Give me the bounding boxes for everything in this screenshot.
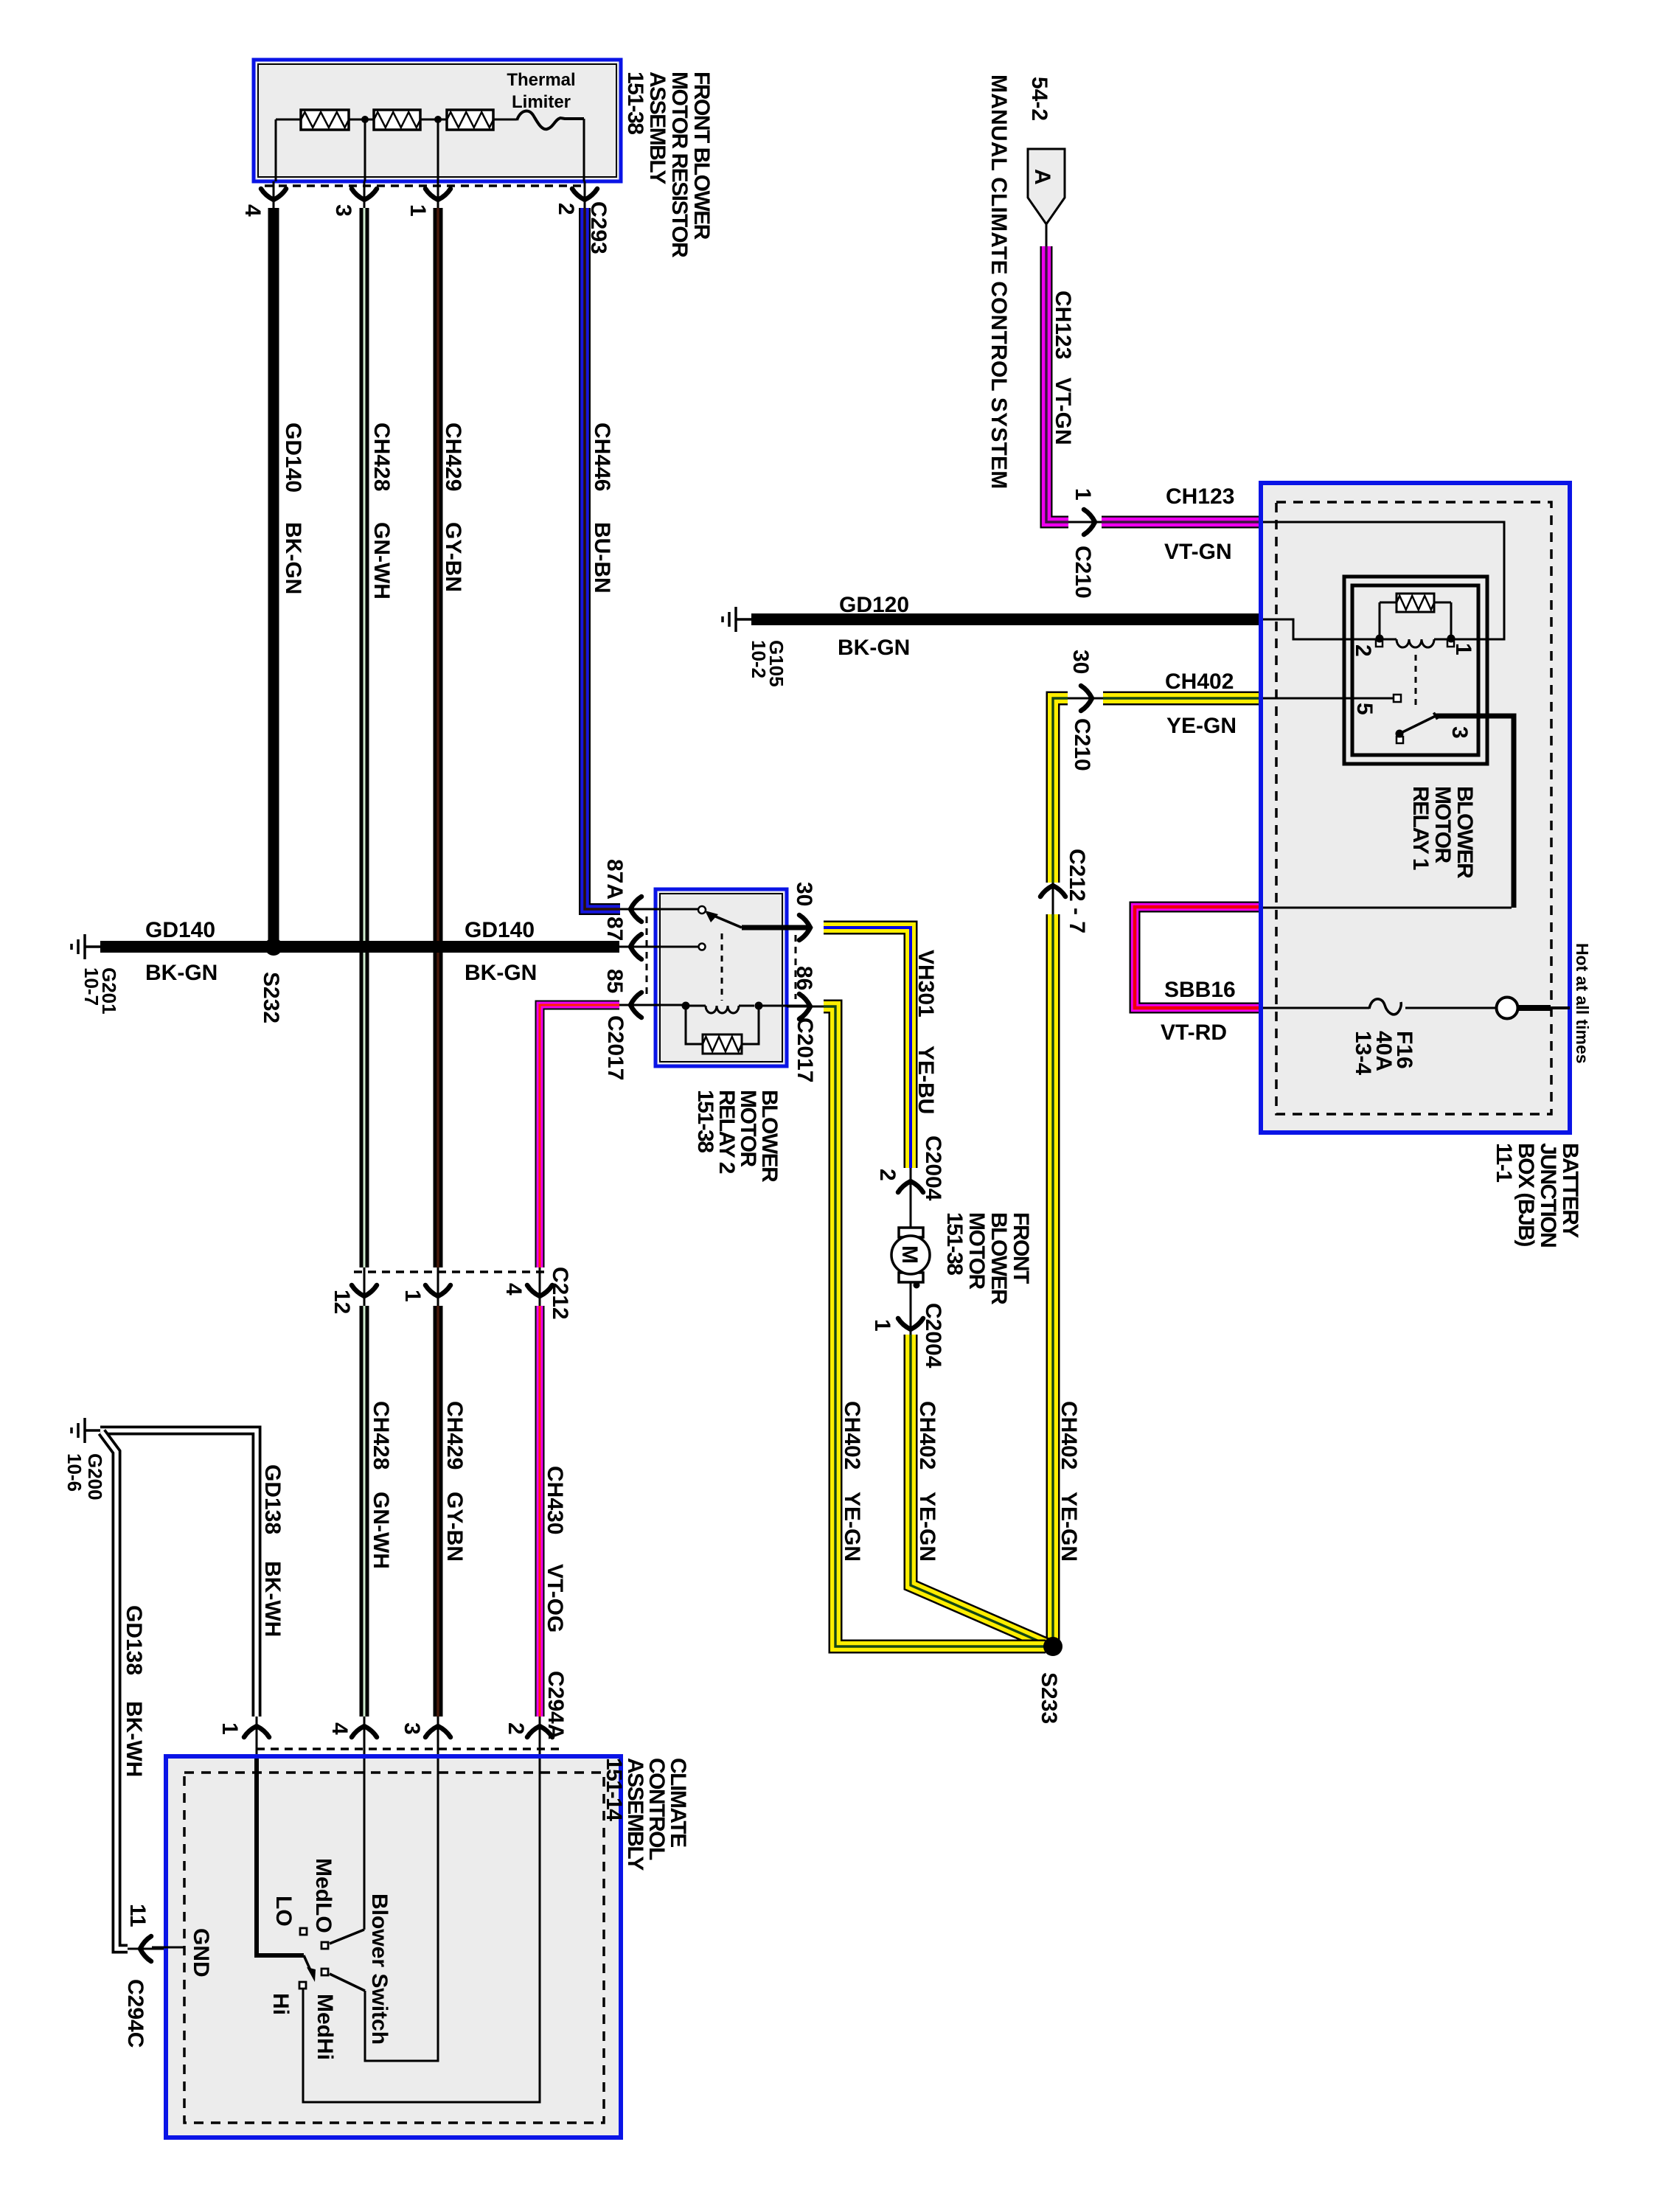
svg-text:Thermal: Thermal [507, 70, 575, 90]
BJB internal wire from CH402 to relay1 pin 5 [1263, 698, 1394, 700]
wire GD138 pin11 label [122, 1605, 146, 1675]
svg-text:YE-BU: YE-BU [914, 1046, 938, 1114]
wire CH402 86 label [840, 1401, 864, 1470]
svg-text:CH402: CH402 [1165, 669, 1234, 694]
splice S232 label [259, 972, 283, 1023]
thermal limiter [507, 70, 584, 129]
blower motor relay 1 box [1344, 577, 1487, 764]
svg-text:2: 2 [504, 1722, 528, 1735]
connector C2004 label lower [921, 1303, 945, 1368]
svg-text:M: M [897, 1245, 922, 1264]
svg-text:LO: LO [271, 1896, 296, 1927]
relay 1 coil terminal dot 2 [1376, 635, 1384, 647]
wire CH428 lower label [369, 1401, 393, 1470]
relay 2 switch output thick wire to pin 30 [742, 925, 810, 931]
svg-text:A: A [1030, 169, 1054, 185]
resistor R-med2 [447, 110, 493, 130]
wire CH123 vertical label [1051, 291, 1075, 359]
pin 11 label [125, 1904, 150, 1927]
resistor assembly label [623, 72, 714, 258]
ground G105 label [748, 640, 787, 687]
wire CH402 86 label color [840, 1492, 864, 1562]
BJB inner dashed boundary [1276, 502, 1551, 1114]
wire CH429 upper label [441, 422, 465, 491]
pin 1 label [870, 1319, 894, 1332]
connector C2004 pin 1 [898, 1282, 923, 1335]
connector C2004 label upper [921, 1135, 945, 1201]
svg-text:C294A: C294A [543, 1671, 568, 1739]
svg-text:SBB16: SBB16 [1164, 978, 1236, 1002]
relay 1 label [1408, 786, 1477, 879]
pin 2 of C293 [572, 181, 597, 209]
wire CH429 lower label color [442, 1492, 467, 1562]
svg-text:MedLO: MedLO [311, 1858, 335, 1933]
svg-text:12: 12 [330, 1290, 354, 1314]
connector C210 pin 1 [1068, 509, 1102, 535]
ground G200 [72, 1418, 100, 1443]
svg-text:GD140: GD140 [145, 918, 215, 942]
battery junction box BJB [1261, 483, 1570, 1133]
svg-text:CH123: CH123 [1166, 484, 1234, 509]
junction dot node bus-pin1 [434, 116, 442, 123]
svg-text:GN-WH: GN-WH [369, 522, 394, 599]
svg-text:1: 1 [406, 204, 430, 217]
wire CH430 label [543, 1466, 567, 1534]
front blower motor label [942, 1212, 1033, 1305]
svg-text:3: 3 [400, 1722, 424, 1735]
MedHi label [313, 1994, 337, 2060]
off-page connector A [1028, 149, 1065, 224]
connector C210 pin 30 [1068, 686, 1103, 711]
svg-text:BK-GN: BK-GN [281, 522, 305, 594]
wire CH430 label color [543, 1564, 567, 1632]
svg-text:GY-BN: GY-BN [441, 522, 465, 592]
svg-text:YE-GN: YE-GN [1057, 1492, 1081, 1562]
svg-text:GY-BN: GY-BN [442, 1492, 467, 1562]
resistor network bus wire [276, 119, 517, 121]
connector C2017 left dashed line [646, 917, 648, 999]
svg-text:86: 86 [792, 966, 816, 990]
wire CH402 riser label [1057, 1401, 1081, 1470]
climate control assembly label [602, 1758, 690, 1871]
switch common wire from pin 1 [257, 1759, 304, 1955]
svg-text:Hi: Hi [268, 1993, 293, 2015]
wire GD120 BK-GN [751, 613, 1262, 625]
connector C294A pin 4 [352, 1717, 377, 1761]
svg-text:1: 1 [870, 1319, 894, 1332]
motor letter M [897, 1245, 922, 1264]
svg-text:GD138: GD138 [122, 1605, 146, 1675]
relay 1 pin 3 thick wire [1436, 716, 1514, 908]
pin 2 label [504, 1722, 528, 1735]
relay 2 switch contact 87 [699, 944, 706, 950]
wire CH429 upper label color [441, 522, 465, 592]
svg-text:CH430: CH430 [543, 1466, 567, 1534]
wire CH430 VT-OG lower segment [535, 1306, 545, 1717]
connector C212 label [548, 1267, 572, 1320]
pin 1 label [218, 1722, 242, 1735]
svg-text:2: 2 [875, 1169, 900, 1181]
svg-text:BK-GN: BK-GN [145, 961, 218, 985]
wire CH446 BU-BN [585, 208, 620, 909]
svg-text:GD140: GD140 [465, 918, 535, 942]
wire CH428 upper label [369, 422, 394, 491]
pin 86 label [792, 966, 816, 990]
blower switch pivot blade [304, 1955, 316, 1982]
svg-text:CH123: CH123 [1051, 291, 1075, 359]
wire CH402 riser label color [1057, 1492, 1081, 1562]
svg-text:1: 1 [400, 1290, 425, 1302]
svg-text:BK-WH: BK-WH [260, 1561, 285, 1637]
wire CH429 GY-BN lower segment [434, 1306, 443, 1717]
front blower motor resistor assembly box 151-38 [254, 60, 621, 181]
relay 2 pin 86 [787, 994, 824, 1019]
connector C294A pin 1 [244, 1717, 269, 1761]
pin 1 label [1071, 488, 1095, 501]
relay 2 coil [689, 1006, 754, 1013]
relay 2 coil terminal dot right [755, 1002, 763, 1010]
pin 2 label [875, 1169, 900, 1181]
svg-text:CH429: CH429 [442, 1401, 467, 1470]
pin 87 label [602, 917, 627, 941]
wire GD140 horizontal bus BK-GN [100, 941, 619, 953]
svg-text:3: 3 [331, 204, 355, 217]
svg-text:BK-GN: BK-GN [838, 636, 910, 660]
wire VH301 YE-BU from relay2 pin 30 [824, 928, 911, 1168]
wire GD140 vertical label [281, 422, 305, 493]
splice S233 label [1037, 1672, 1061, 1724]
climate control assembly box [166, 1756, 621, 2138]
wire GD138 pin11 label color [122, 1701, 146, 1777]
wire VH301 label color [914, 1046, 938, 1114]
connector C293 label [586, 201, 611, 254]
svg-text:87: 87 [602, 917, 627, 941]
svg-text:CH402: CH402 [840, 1401, 864, 1470]
connector C212 dashed line [354, 1270, 549, 1273]
relay 1 pin 3 label [1447, 726, 1472, 739]
svg-text:11: 11 [125, 1904, 150, 1927]
svg-text:87A: 87A [602, 859, 627, 900]
svg-text:BK-WH: BK-WH [122, 1701, 146, 1777]
climate box inner dashed boundary [184, 1773, 604, 2123]
wire CH446 label [590, 422, 614, 491]
wire CH429 lower label [442, 1401, 467, 1470]
pin 4 internal wire [364, 1759, 366, 1930]
connector C212 - 7 label [1065, 849, 1089, 933]
BJB internal wire from SBB16 bottom to fuse [1263, 1007, 1369, 1009]
connector C2017 right label [793, 1018, 817, 1082]
BJB internal wire from GD120 to relay1 pin 2 [1263, 619, 1376, 639]
GND terminal wire [152, 1947, 184, 1949]
relay 2 switch contact 87A [698, 906, 706, 914]
wire CH402 motor label [915, 1401, 939, 1470]
svg-text:VT-OG: VT-OG [543, 1564, 567, 1632]
wire CH402 YE-GN riser lower segment [1046, 914, 1060, 1646]
wire SBB16 VT-RD loop [1135, 907, 1262, 1008]
wire CH446 label color [590, 522, 614, 594]
wire GD140 BK-GN vertical [268, 208, 279, 941]
svg-text:GN-WH: GN-WH [369, 1492, 393, 1569]
lead from connector A [1046, 224, 1048, 246]
manual climate control system label [987, 74, 1011, 489]
wire GD138 pin1 label color [260, 1561, 285, 1637]
pin 4 label [501, 1283, 526, 1295]
pin 1 label [400, 1290, 425, 1302]
relay 1 switch blade [1399, 713, 1438, 734]
svg-text:CH428: CH428 [369, 422, 394, 491]
svg-text:C2004: C2004 [921, 1135, 945, 1201]
svg-text:4: 4 [501, 1283, 526, 1295]
pin 4 of C293 [261, 181, 286, 209]
svg-text:BU-BN: BU-BN [590, 522, 614, 594]
pin 3 label [400, 1722, 424, 1735]
connector C2017 right dashed line [795, 935, 797, 999]
sheet reference 54-2 label [1027, 77, 1051, 121]
MedLO blade to pin 4 wire [330, 1930, 364, 1944]
wire CH428 GN-WH upper segment [360, 208, 369, 1267]
C212 pin 4 [527, 1267, 552, 1306]
MedHi blade to pin 3 wire [330, 1974, 365, 1991]
svg-text:CH402: CH402 [915, 1401, 939, 1470]
relay 1 coil [1380, 639, 1451, 647]
svg-text:GD140: GD140 [281, 422, 305, 493]
switch position contact MedLO [321, 1942, 328, 1949]
svg-text:3: 3 [1447, 726, 1472, 739]
svg-text:CH402: CH402 [1057, 1401, 1081, 1470]
svg-text:Blower Switch: Blower Switch [367, 1893, 392, 2045]
relay 2 actuator dashed link [721, 933, 723, 1001]
svg-text:54-2: 54-2 [1027, 77, 1051, 121]
relay 2 parallel resistor [686, 1006, 759, 1054]
svg-text:VH301: VH301 [914, 950, 938, 1018]
relay 2 pin 87A [620, 897, 703, 922]
relay 1 actuator dashed link [1415, 655, 1417, 706]
wire GD138 BK-WH branch to pin 11 [102, 1432, 128, 1949]
wire CH430 VT-OG upper segment [540, 1005, 619, 1267]
svg-text:GD138: GD138 [260, 1464, 285, 1534]
svg-text:YE-GN: YE-GN [840, 1492, 864, 1562]
resistor R-med1 [374, 110, 420, 130]
svg-text:Limiter: Limiter [512, 92, 571, 112]
wire VH301 label [914, 950, 938, 1018]
wire GD138 pin1 label [260, 1464, 285, 1534]
internal drop wires to pins [276, 119, 584, 181]
BJB internal wire from SBB16 top to relay1 pin 3 [1263, 907, 1512, 909]
svg-text:S233: S233 [1037, 1672, 1061, 1724]
LO label [271, 1896, 296, 1927]
pin 85 label [602, 969, 627, 993]
svg-text:C210: C210 [1071, 546, 1095, 599]
svg-text:C212: C212 [548, 1267, 572, 1320]
connector C294A pin 3 [425, 1717, 451, 1761]
switch position contact Hi [299, 1982, 306, 1989]
svg-text:30: 30 [792, 882, 816, 906]
svg-text:1: 1 [218, 1722, 242, 1735]
relay 2 pin 30 [799, 915, 810, 940]
svg-text:2: 2 [554, 203, 578, 215]
ground G200 label [63, 1453, 106, 1500]
svg-text:GND: GND [189, 1928, 213, 1978]
pin 87A label [602, 859, 627, 900]
fuse terminal circle [1405, 998, 1518, 1019]
svg-text:CH429: CH429 [441, 422, 465, 491]
wire CH402 YE-GN horizontal [1103, 692, 1262, 706]
relay 1 pin 2 label [1351, 644, 1375, 657]
relay 2 switch blade [705, 911, 742, 928]
svg-text:VT-RD: VT-RD [1161, 1020, 1227, 1045]
svg-text:MedHi: MedHi [313, 1994, 337, 2060]
svg-text:C2017: C2017 [793, 1018, 817, 1082]
svg-text:Hot at all times: Hot at all times [1573, 943, 1592, 1064]
connector A letter [1030, 169, 1054, 185]
hot at all times label [1573, 943, 1592, 1064]
pin 3 internal wire [365, 1759, 438, 2061]
relay 1 pin 1 label [1451, 643, 1475, 655]
ground G201 label [80, 967, 120, 1015]
connector C294A pin 2 [527, 1717, 552, 1761]
wire CH123 VT-GN horizontal [1102, 516, 1262, 529]
fuse F16 label [1351, 1031, 1416, 1075]
ground G105 [723, 607, 751, 632]
svg-text:GD120: GD120 [839, 593, 909, 617]
connector C212 pin 7 [1040, 883, 1065, 914]
svg-text:4: 4 [327, 1722, 352, 1735]
svg-text:VT-GN: VT-GN [1051, 378, 1075, 445]
svg-text:1: 1 [1071, 488, 1095, 501]
BJB internal wire from CH123 to relay1 pin 1 [1263, 522, 1504, 639]
pin 12 label [330, 1290, 354, 1314]
wire GD138 BK-WH branch to pin 1 [100, 1430, 257, 1717]
svg-text:MANUAL CLIMATE CONTROL SYSTEM: MANUAL CLIMATE CONTROL SYSTEM [987, 74, 1011, 489]
relay 2 pin 87 [619, 934, 703, 959]
relay 1 resistor [1380, 594, 1451, 639]
pin 1 of C293 [425, 181, 451, 209]
GND label [189, 1928, 213, 1978]
splice S232 [265, 938, 282, 956]
fuse F16 40A [1369, 999, 1401, 1015]
svg-text:CH446: CH446 [590, 422, 614, 491]
blower motor relay 2 box [655, 889, 787, 1066]
junction dot node bus-pin3 [361, 116, 369, 123]
connector C294A dashed line [257, 1747, 564, 1750]
BJB label [1492, 1143, 1582, 1247]
svg-text:YE-GN: YE-GN [1166, 714, 1237, 738]
connector C2017 left label [603, 1015, 627, 1080]
wire CH428 GN-WH lower segment [360, 1306, 369, 1717]
svg-text:30: 30 [1068, 650, 1093, 674]
pin 2 internal wire to Hi [303, 1759, 540, 2102]
C212 pin 12 [352, 1267, 377, 1306]
connector C294A label [543, 1671, 568, 1739]
svg-text:C212 - 7: C212 - 7 [1065, 849, 1089, 933]
connector C210 label lower [1070, 718, 1094, 771]
svg-text:C294C: C294C [123, 1979, 147, 2048]
svg-text:85: 85 [602, 969, 627, 993]
wire CH402 YE-GN riser top corner [1053, 698, 1068, 883]
pin 3 of C293 [352, 181, 377, 209]
svg-text:1: 1 [1451, 643, 1475, 655]
connector C294C label [123, 1979, 147, 2048]
svg-text:C210: C210 [1070, 718, 1094, 771]
svg-text:CH428: CH428 [369, 1401, 393, 1470]
relay 2 coil terminal dot left [682, 1002, 690, 1010]
svg-text:YE-GN: YE-GN [915, 1492, 939, 1562]
svg-text:C2004: C2004 [921, 1303, 945, 1368]
wire CH402 YE-GN from relay2 pin 86 [824, 1006, 1046, 1646]
relay 2 pin 85 [619, 992, 686, 1018]
connector C2004 pin 2 [898, 1168, 923, 1228]
connector C293 dashed line [265, 184, 585, 187]
relay 2 label [693, 1090, 782, 1183]
svg-text:C2017: C2017 [603, 1015, 627, 1080]
svg-text:2: 2 [1351, 644, 1375, 657]
MedLO label [311, 1858, 335, 1933]
pin 30 label [1068, 650, 1093, 674]
connector C294C pin 11 [128, 1936, 184, 1961]
C212 pin 1 [425, 1267, 451, 1306]
splice S233 [1043, 1637, 1062, 1656]
pin 30 label [792, 882, 816, 906]
front blower motor M [891, 1228, 930, 1282]
Hi label [268, 1993, 293, 2015]
battery feed thick wire [1518, 1005, 1551, 1011]
relay 1 coil terminal dot 1 [1447, 635, 1455, 647]
blower switch label [367, 1893, 392, 2045]
ground G201 [72, 934, 100, 959]
svg-text:BK-GN: BK-GN [465, 961, 537, 985]
wire CH402 YE-GN from motor [911, 1335, 1048, 1645]
svg-text:F1640A13-4: F1640A13-4 [1351, 1031, 1416, 1075]
motor polarity dot [914, 1282, 920, 1289]
switch position contact MedHi [321, 1969, 328, 1975]
relay 1 switch pivot [1396, 730, 1404, 744]
connector C210 label upper [1071, 546, 1095, 599]
relay 1 pin 5 label [1352, 703, 1377, 715]
svg-text:VT-GN: VT-GN [1164, 540, 1232, 564]
wire CH429 GY-BN upper segment [434, 208, 443, 1267]
wire CH123 vertical label color [1051, 378, 1075, 445]
svg-text:5: 5 [1352, 703, 1377, 715]
wire CH428 upper label color [369, 522, 394, 599]
wire CH402 motor label color [915, 1492, 939, 1562]
wire CH428 lower label color [369, 1492, 393, 1569]
relay 1 pin 5 contact [1394, 695, 1401, 702]
svg-text:S232: S232 [259, 972, 283, 1023]
svg-text:4: 4 [240, 204, 265, 217]
wire GD140 vertical label color [281, 522, 305, 594]
switch position contact LO [300, 1928, 307, 1935]
relay 2 coil line to pin 86 [759, 1005, 810, 1007]
pin 4 label [327, 1722, 352, 1735]
resistor R-low [301, 110, 349, 130]
wire CH123 VT-GN vertical [1046, 246, 1068, 522]
